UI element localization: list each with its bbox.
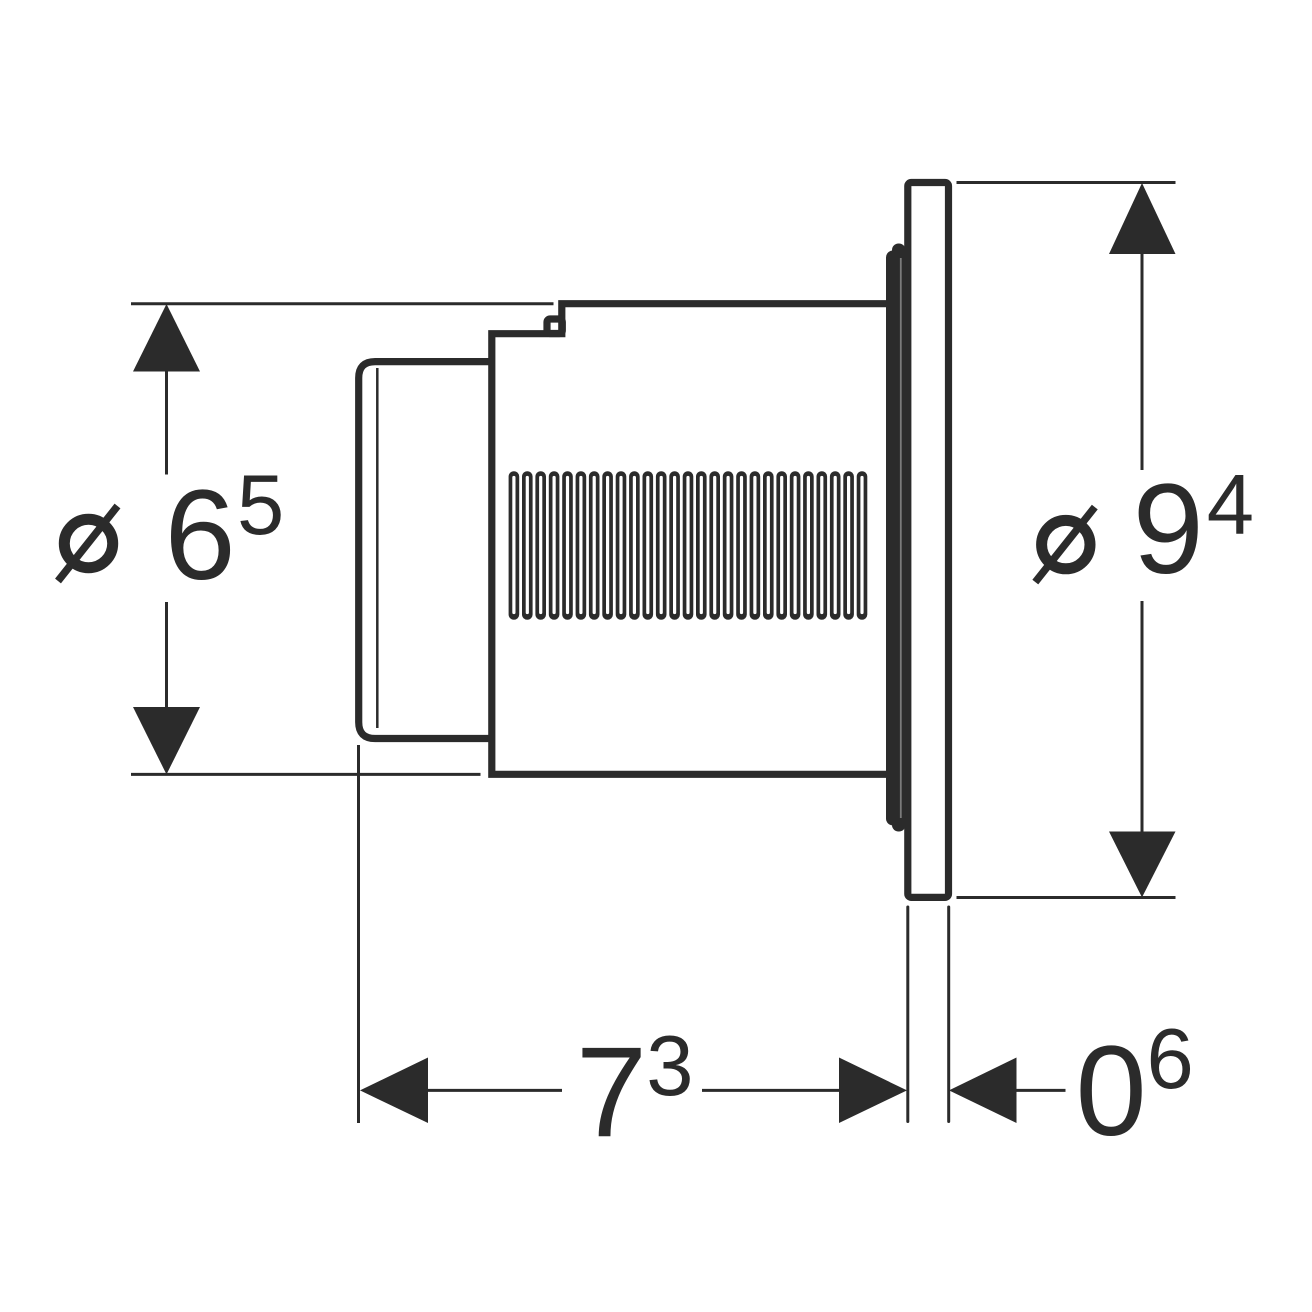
- arrowhead 7^3 right: [839, 1058, 907, 1124]
- dimension line dia 9^4 lower: [1141, 601, 1144, 832]
- dimension line 0^6 tail: [1016, 1089, 1066, 1092]
- retaining clip notch: [547, 319, 562, 334]
- svg-text:4: 4: [1207, 458, 1254, 553]
- gasket seam line: [900, 258, 902, 818]
- svg-text:7: 7: [576, 1021, 647, 1164]
- extension line top right (plate top): [957, 181, 1176, 184]
- label dia 6^5: [58, 458, 284, 607]
- dimension line dia 6^5 lower: [165, 602, 168, 709]
- dimension line 7^3 right: [702, 1089, 840, 1092]
- arrowheads: [133, 183, 1176, 1123]
- extension line plate front: [906, 907, 909, 1122]
- arrowhead dia 9^4 down: [1109, 832, 1176, 898]
- extension line plate back: [947, 907, 950, 1122]
- button face line: [376, 368, 379, 728]
- svg-text:6: 6: [1147, 1012, 1194, 1107]
- label 0^6: [1076, 1012, 1194, 1163]
- svg-text:0: 0: [1076, 1020, 1147, 1163]
- arrowhead dia 6^5 up: [133, 304, 200, 372]
- thread: [514, 477, 862, 615]
- svg-text:3: 3: [646, 1019, 693, 1114]
- extension line bottom left (cartridge bottom): [131, 773, 481, 776]
- svg-text:6: 6: [165, 464, 236, 607]
- gasket inner layer: [892, 244, 906, 832]
- dimension line dia 9^4 upper: [1141, 252, 1144, 470]
- arrowhead dia 6^5 down: [133, 707, 200, 774]
- arrowhead 7^3 left: [360, 1058, 428, 1124]
- dimension line 7^3 left: [427, 1089, 562, 1092]
- label dia 9^4: [1035, 458, 1254, 601]
- extension line button face: [357, 745, 360, 1123]
- extension line bottom right (plate bottom): [957, 896, 1176, 899]
- label 7^3: [576, 1019, 694, 1164]
- svg-text:5: 5: [237, 458, 284, 553]
- extension line top left (cartridge top): [131, 302, 554, 305]
- extension lines: [131, 183, 1176, 1124]
- wall plate: [908, 183, 949, 898]
- arrowhead 0^6 left: [949, 1058, 1017, 1124]
- svg-text:9: 9: [1133, 458, 1204, 601]
- cartridge body: [492, 304, 886, 775]
- gasket outer layer: [886, 251, 902, 826]
- arrowhead dia 9^4 up: [1109, 183, 1176, 254]
- dimension line dia 6^5 upper: [165, 369, 168, 475]
- push button: [359, 362, 492, 739]
- dimension lines: [167, 252, 1143, 1090]
